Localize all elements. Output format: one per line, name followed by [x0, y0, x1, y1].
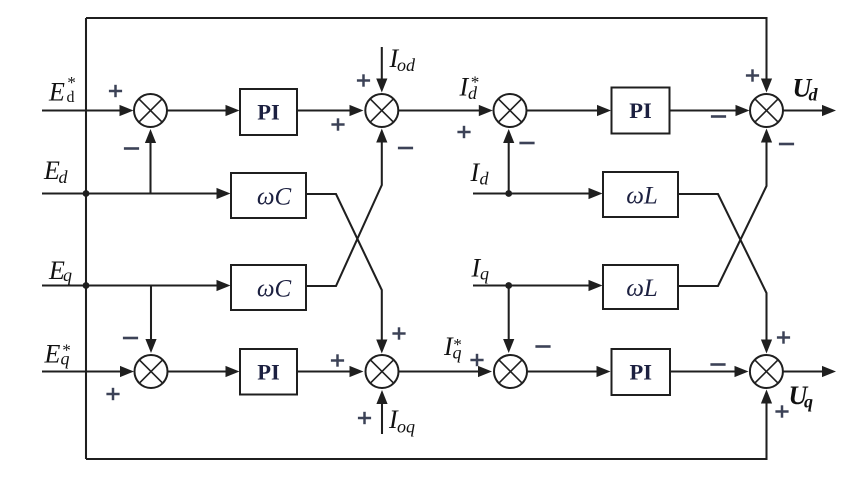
- wire: PI out to sum S6: [297, 366, 364, 377]
- sign + S6 bottom input: [358, 417, 371, 420]
- wire: I_od input down into sum S2: [376, 47, 387, 93]
- wire: I_q feedback down into sum S7: [503, 286, 514, 354]
- wire: I_d input to wL block: [473, 188, 603, 199]
- node: I_d tap: [505, 190, 512, 197]
- summing junction S4 (U_d): [750, 94, 783, 127]
- svg-text:ωC: ωC: [257, 276, 292, 303]
- wire: E_d input to wC block: [42, 188, 231, 199]
- block wC (E_q cross): [231, 265, 306, 310]
- svg-text:ωL: ωL: [626, 275, 658, 302]
- svg-text:PI: PI: [629, 98, 652, 123]
- svg-text:d: d: [468, 83, 478, 103]
- sign - S4 left input: [711, 115, 726, 118]
- wire: E_q feedback down into sum S5: [145, 286, 156, 354]
- sign + S8 bottom input: [775, 410, 788, 413]
- block PI (q-axis voltage loop): [240, 349, 297, 395]
- wire: S3 to PI block d-current: [527, 105, 612, 116]
- wire: wC top output cross down into sum S6: [306, 194, 387, 354]
- summing junction S2: [365, 94, 398, 127]
- wire: S2 out I*_d to sum S3: [398, 105, 493, 116]
- svg-text:d: d: [480, 169, 490, 189]
- wire: S1 to PI block d-voltage: [167, 105, 240, 116]
- sign + S1 left input: [109, 90, 122, 93]
- sign - S5 top input: [123, 337, 138, 340]
- summing junction S1: [134, 94, 167, 127]
- sign - S8 left input: [710, 363, 725, 366]
- svg-text:q: q: [453, 343, 462, 363]
- wire: U_d output: [783, 105, 836, 116]
- svg-text:PI: PI: [257, 359, 280, 384]
- wire: E_d feedback up into sum S1: [145, 129, 156, 194]
- wire: PI out to sum S8: [670, 366, 749, 377]
- sign - S1 bottom input: [124, 147, 139, 150]
- node: E_d tap on feedback bus: [83, 190, 90, 197]
- svg-text:ωL: ωL: [626, 183, 658, 210]
- wire: I_q input to wL block: [473, 280, 603, 291]
- wire: wL bottom output cross up into sum S4: [678, 129, 772, 287]
- sign - S3 bottom input: [519, 142, 534, 145]
- wire: wL top output cross down into sum S8: [678, 194, 772, 354]
- node: E_q tap on feedback bus: [83, 282, 90, 289]
- wire: S6 out I*_q to sum S7: [399, 366, 493, 377]
- svg-text:od: od: [397, 55, 416, 75]
- wire: left feedback bus vertical: [85, 18, 87, 459]
- wire: PI out to sum S4: [669, 105, 750, 116]
- sign + S2 left input: [331, 123, 344, 126]
- wire: E_q input to wC block: [42, 280, 231, 291]
- sign + S6 top input: [392, 332, 405, 335]
- svg-text:q: q: [61, 349, 70, 369]
- summing junction S6: [366, 355, 399, 388]
- wire: E*_d input: [42, 105, 134, 116]
- wire: I_oq input up into sum S6: [376, 390, 387, 434]
- wire: PI out to sum S2: [297, 105, 364, 116]
- svg-text:d: d: [59, 167, 69, 187]
- node: I_q tap: [505, 282, 512, 289]
- svg-text:E: E: [44, 340, 61, 369]
- sign + S7 left input: [470, 359, 483, 362]
- svg-text:d: d: [809, 85, 819, 105]
- sign - S4 bottom input: [779, 143, 794, 146]
- block PI (d-axis voltage loop): [240, 89, 297, 135]
- block PI (q-axis current loop): [612, 349, 671, 395]
- wire: E*_q input: [42, 366, 134, 377]
- sign - S7 top input: [535, 345, 550, 348]
- svg-text:PI: PI: [630, 360, 653, 385]
- svg-text:q: q: [63, 265, 72, 285]
- wire: S5 to PI block q-voltage: [168, 366, 240, 377]
- wire: U_q output: [783, 366, 836, 377]
- svg-text:q: q: [804, 392, 813, 412]
- sign + S6 left input: [331, 359, 344, 362]
- summing junction S7: [494, 355, 527, 388]
- wire: top feedforward E_d to U_d junction: [86, 18, 772, 93]
- svg-text:ωC: ωC: [257, 184, 292, 211]
- sign + S4 top input: [746, 74, 759, 77]
- sign + S2 top input: [357, 79, 370, 82]
- sign + S5 left input: [106, 393, 119, 396]
- svg-text:oq: oq: [397, 417, 415, 437]
- summing junction S3: [494, 94, 527, 127]
- wire: I_d feedback up into sum S3: [503, 129, 514, 194]
- svg-text:d: d: [67, 89, 75, 106]
- block wL (I_d cross): [603, 172, 678, 217]
- wire: wC bottom output cross up into sum S2: [306, 129, 387, 287]
- sign + S8 top input: [777, 336, 790, 339]
- svg-text:q: q: [480, 264, 489, 284]
- wire: bottom feedforward E_q to U_q junction: [86, 390, 772, 460]
- summing junction S5: [135, 355, 168, 388]
- sign - S2 bottom input: [398, 147, 413, 150]
- summing junction S8 (U_q): [750, 355, 783, 388]
- sign + S3 left input: [457, 131, 470, 134]
- block wC (E_d cross): [231, 173, 306, 218]
- svg-text:E: E: [43, 156, 60, 185]
- block PI (d-axis current loop): [612, 88, 670, 134]
- svg-text:PI: PI: [257, 100, 280, 125]
- wire: S7 to PI block q-current: [527, 366, 611, 377]
- svg-text:E: E: [48, 78, 65, 107]
- block wL (I_q cross): [603, 265, 678, 309]
